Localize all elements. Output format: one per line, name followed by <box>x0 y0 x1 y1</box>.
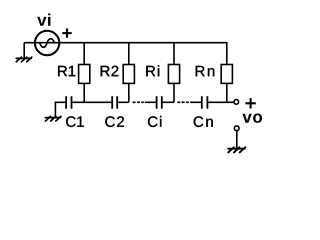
wire: dashed continuation after Ri node <box>177 101 189 103</box>
wire: negative terminal to ground <box>236 131 238 149</box>
label Ri <box>146 65 159 76</box>
resistor R1 <box>79 65 90 84</box>
wire: solid into Ci <box>145 101 156 103</box>
label Ci <box>148 116 161 127</box>
wire: C2 to R2 node <box>118 101 129 103</box>
label C2 <box>105 116 124 127</box>
ground (bottom-left) <box>45 116 61 121</box>
capacitor C1 plates <box>66 96 71 109</box>
resistor Ri <box>168 65 179 84</box>
label R2 <box>101 66 119 76</box>
label R1 <box>58 66 75 76</box>
wire: solid into Cn <box>190 101 201 103</box>
wire: left drop from rail corner to ground <box>23 43 25 58</box>
wire: R1 top stub <box>83 43 85 65</box>
label C1 <box>66 116 84 127</box>
wire: bottom-left corner down to ground <box>55 102 65 117</box>
label vo <box>242 114 262 123</box>
resistor Rn <box>221 65 232 84</box>
capacitor C2 plates <box>112 96 117 109</box>
plus sign (source polarity) <box>62 28 71 37</box>
wire: C1 to C2 through R1 node <box>72 101 111 103</box>
ground (source return, top-left) <box>16 57 32 62</box>
wire: top rail from source left corner to Rn corner, down into Rn <box>24 43 227 64</box>
ac source sine wave <box>40 39 55 48</box>
ground (output return, bottom-right) <box>228 147 245 152</box>
label Cn <box>194 116 213 127</box>
wire: R1 bottom stub <box>83 83 85 102</box>
wire: Ri bottom stub <box>173 83 175 102</box>
terminal: vo negative (open circle) <box>234 126 239 131</box>
wire: R2 bottom stub <box>128 83 130 102</box>
capacitor Ci plates <box>157 96 162 109</box>
wire: Ri top stub <box>173 43 175 65</box>
plus sign (output polarity) <box>245 98 255 108</box>
wire: dashed continuation after R2 node <box>133 101 144 103</box>
label vi <box>37 13 50 25</box>
resistor R2 <box>123 65 134 84</box>
terminal: vo positive (open circle) <box>234 100 239 105</box>
wire: Rn bottom stub <box>226 83 228 102</box>
ac source vi circle <box>35 31 59 55</box>
wire: R2 top stub <box>128 43 130 65</box>
capacitor Cn plates <box>202 96 208 109</box>
wire: Ci to Ri node <box>163 101 174 103</box>
label Rn <box>196 66 215 76</box>
wire: Cn to Rn node to output terminal <box>208 101 233 103</box>
